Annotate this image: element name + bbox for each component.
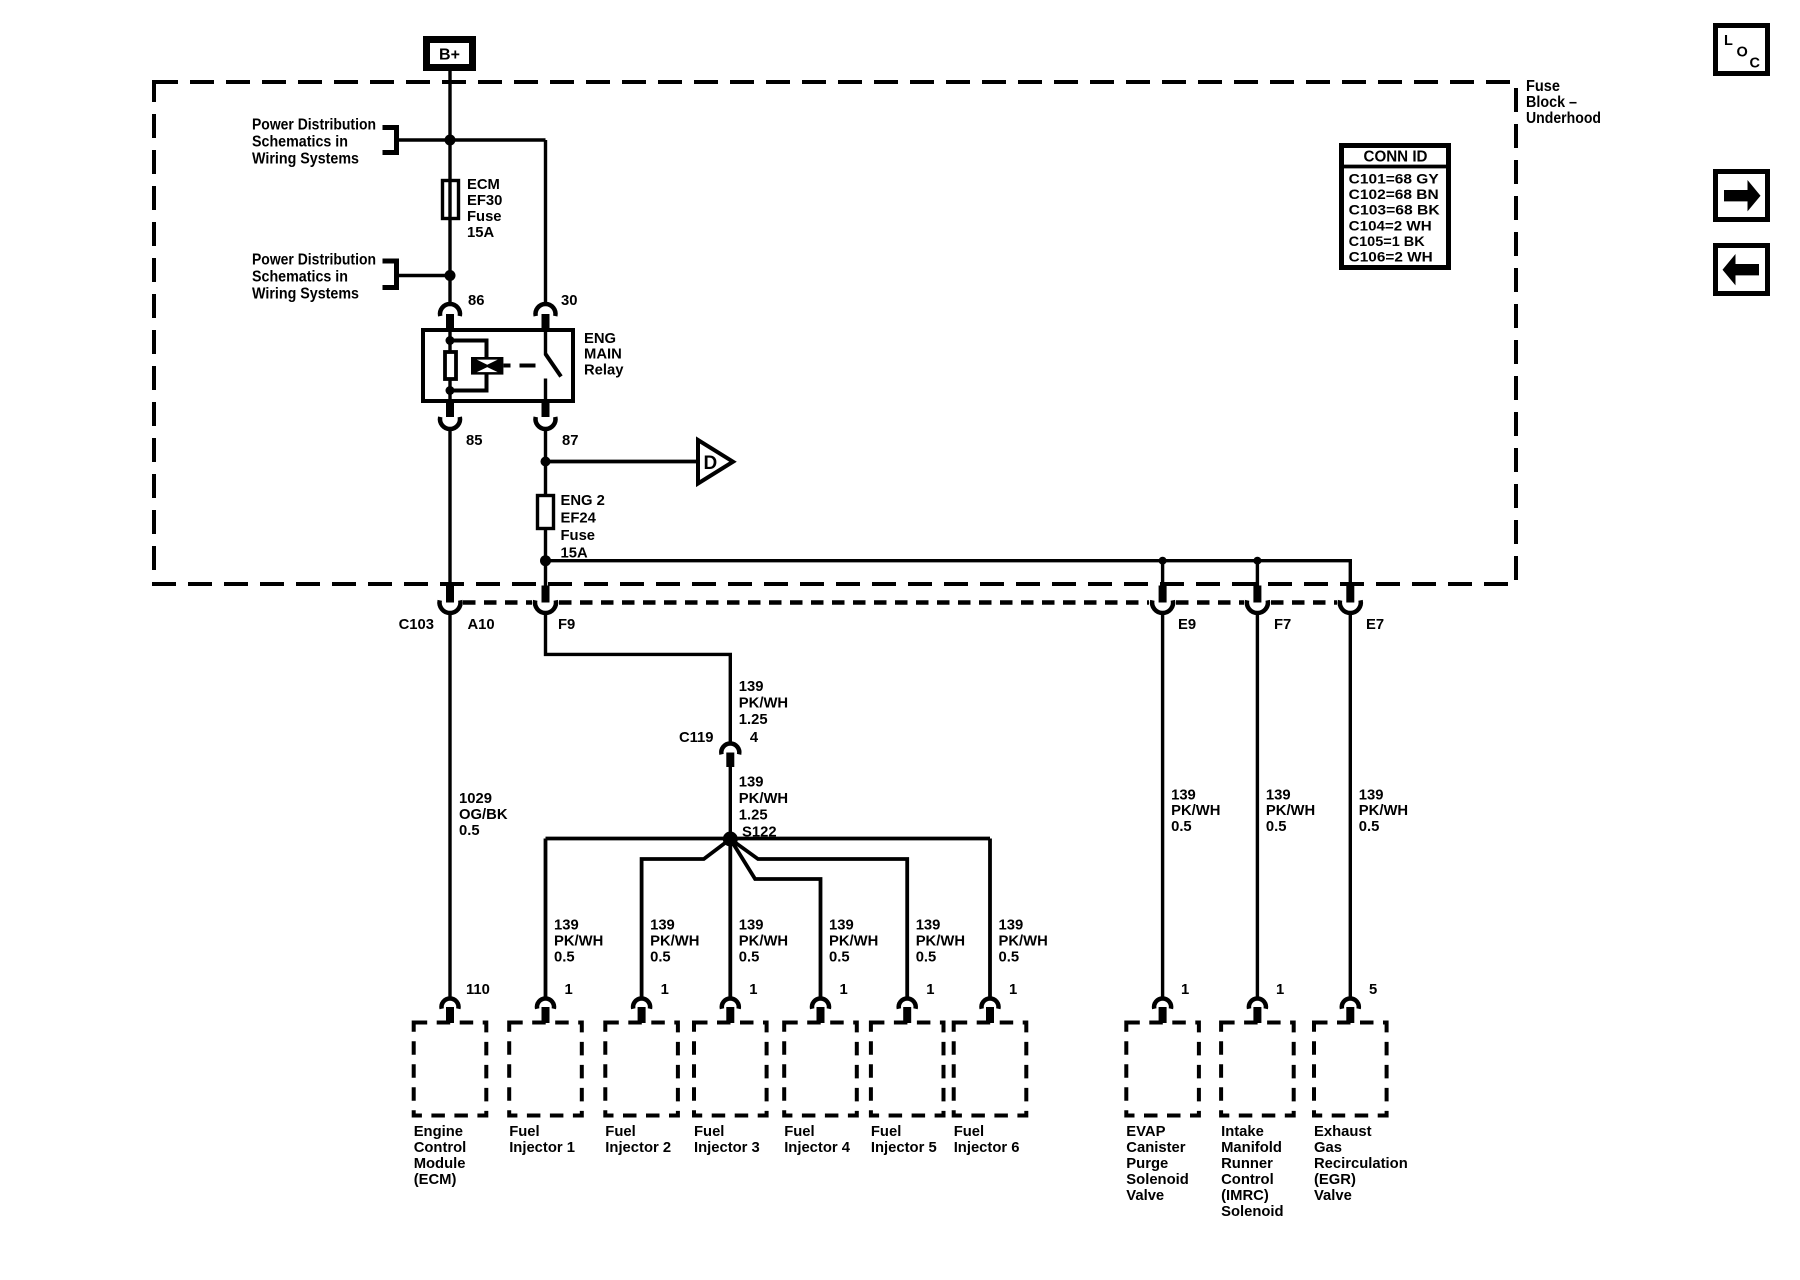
- svg-text:0.5: 0.5: [1171, 819, 1192, 835]
- svg-text:110: 110: [466, 982, 490, 998]
- wire: stub down to E9: [1161, 561, 1164, 586]
- svg-text:Fuel: Fuel: [954, 1124, 984, 1140]
- connector cap at ECM pin 110: [441, 998, 458, 1008]
- connector cap at Fuel Injector 6: [982, 998, 999, 1008]
- svg-text:PK/WH: PK/WH: [1359, 803, 1408, 819]
- svg-text:Fuel: Fuel: [509, 1124, 539, 1140]
- svg-text:5: 5: [1369, 982, 1377, 998]
- svg-text:139: 139: [739, 918, 764, 934]
- connector cap at EVAP valve: [1154, 998, 1171, 1008]
- connector C119: [721, 743, 739, 754]
- svg-text:F7: F7: [1274, 617, 1291, 633]
- svg-text:PK/WH: PK/WH: [739, 934, 788, 950]
- wire: injector 5 branch: [730, 839, 907, 997]
- svg-text:Valve: Valve: [1126, 1188, 1164, 1204]
- svg-text:PK/WH: PK/WH: [739, 791, 788, 807]
- svg-text:1: 1: [565, 982, 573, 998]
- svg-text:Runner: Runner: [1221, 1156, 1273, 1172]
- connector cap at Fuel Injector 3: [722, 998, 739, 1008]
- svg-text:Power Distribution: Power Distribution: [252, 117, 376, 134]
- relay switch: movable arm: [546, 354, 562, 377]
- svg-text:1: 1: [661, 982, 669, 998]
- wire: upper ref to B+ wire and over to relay pin 30: [399, 138, 546, 141]
- fuse ECM EF30 15A: [443, 181, 459, 219]
- svg-text:Fuse: Fuse: [467, 209, 502, 225]
- svg-text:Purge: Purge: [1126, 1156, 1168, 1172]
- fuse ENG 2 EF24 15A: [538, 496, 554, 529]
- wires E9/F7/E7 down to solenoid valves: [1161, 614, 1164, 997]
- svg-text:MAIN: MAIN: [584, 347, 622, 363]
- svg-text:Power Distribution: Power Distribution: [252, 252, 376, 269]
- relay switch: pin 87 contact: [544, 379, 547, 402]
- svg-text:139: 139: [554, 918, 579, 934]
- node: junction at B+ wire / lower ref: [445, 270, 456, 281]
- wire: fuse down to junction: [544, 529, 547, 586]
- svg-text:D: D: [704, 453, 718, 474]
- component box: fuel injector 5: [871, 1023, 944, 1116]
- fuse block dashed border: Fuse Block - Underhood: [154, 82, 1516, 584]
- svg-text:0.5: 0.5: [1359, 819, 1380, 835]
- svg-text:Fuel: Fuel: [784, 1124, 814, 1140]
- wire: coil to armature stub: [504, 364, 511, 368]
- wire: down to relay pin 30: [544, 140, 547, 305]
- svg-text:Gas: Gas: [1314, 1140, 1342, 1156]
- relay coil element (crossed box): [471, 357, 503, 375]
- svg-text:139: 139: [739, 679, 764, 695]
- svg-text:C104=2 WH: C104=2 WH: [1349, 217, 1432, 233]
- svg-text:Injector 3: Injector 3: [694, 1140, 760, 1156]
- svg-text:Module: Module: [414, 1156, 466, 1172]
- svg-text:Fuel: Fuel: [605, 1124, 635, 1140]
- svg-text:ECM: ECM: [467, 177, 500, 193]
- svg-text:Intake: Intake: [1221, 1124, 1264, 1140]
- wire: lower ref to B+ wire: [399, 274, 450, 277]
- wire 139 PK/WH 1.25: F9 down and over to C119: [546, 614, 731, 742]
- svg-text:139: 139: [1171, 788, 1196, 804]
- svg-text:PK/WH: PK/WH: [999, 934, 1048, 950]
- svg-text:PK/WH: PK/WH: [916, 934, 965, 950]
- connector cap at relay pin 30: [536, 304, 556, 316]
- wire: B+ down to relay pin 86 (through ECM fuse): [448, 71, 451, 305]
- svg-text:Block –: Block –: [1526, 94, 1577, 111]
- wire: stub down to F7: [1256, 561, 1259, 586]
- svg-text:C119: C119: [679, 730, 714, 746]
- svg-text:Injector 4: Injector 4: [784, 1140, 851, 1156]
- svg-text:PK/WH: PK/WH: [554, 934, 603, 950]
- svg-text:A10: A10: [468, 617, 495, 633]
- node: junction at B+ wire / upper ref: [445, 135, 456, 146]
- component box: fuel injector 4: [784, 1023, 857, 1116]
- node: junction at E9 stub: [1159, 557, 1167, 565]
- svg-text:1: 1: [840, 982, 848, 998]
- component box: fuel injector 2: [605, 1023, 678, 1116]
- connector cap at EGR valve: [1342, 998, 1359, 1008]
- svg-text:Schematics in: Schematics in: [252, 269, 348, 286]
- svg-text:139: 139: [829, 918, 854, 934]
- svg-text:C106=2 WH: C106=2 WH: [1349, 249, 1433, 265]
- wire: coil parallel loop: [450, 341, 487, 391]
- svg-text:Manifold: Manifold: [1221, 1140, 1282, 1156]
- svg-text:Injector 5: Injector 5: [871, 1140, 937, 1156]
- svg-text:ENG: ENG: [584, 331, 616, 347]
- relay coil resistor: [445, 352, 456, 379]
- svg-text:PK/WH: PK/WH: [1171, 803, 1220, 819]
- svg-text:139: 139: [1266, 788, 1291, 804]
- wire 1029 OG/BK: A10 down to ECM pin 110: [448, 614, 451, 997]
- svg-text:0.5: 0.5: [459, 823, 480, 839]
- svg-text:EF24: EF24: [561, 511, 597, 527]
- svg-text:Engine: Engine: [414, 1124, 463, 1140]
- svg-text:PK/WH: PK/WH: [829, 934, 878, 950]
- svg-text:C103=68 BK: C103=68 BK: [1349, 202, 1440, 218]
- svg-text:C101=68 GY: C101=68 GY: [1349, 171, 1440, 187]
- connector C103 pin E9: [1159, 586, 1167, 603]
- svg-text:Control: Control: [414, 1140, 467, 1156]
- table CONN ID: [1342, 146, 1449, 268]
- connector C103 pin A10: [446, 586, 454, 603]
- connector cap at relay pin 86: [440, 304, 460, 316]
- nav icon: forward arrow box: [1716, 172, 1768, 220]
- bracket: off-page ref Power Distribution (upper): [383, 125, 397, 155]
- svg-text:Relay: Relay: [584, 362, 624, 378]
- wire: feed across to EVAP / IMRC / EGR columns: [546, 561, 1351, 586]
- component box: EVAP canister purge solenoid valve: [1126, 1023, 1199, 1116]
- svg-text:PK/WH: PK/WH: [739, 696, 788, 712]
- svg-text:85: 85: [466, 433, 482, 449]
- svg-text:139: 139: [1359, 788, 1384, 804]
- svg-text:EF30: EF30: [467, 193, 502, 209]
- svg-text:Wiring Systems: Wiring Systems: [252, 286, 359, 303]
- svg-text:CONN ID: CONN ID: [1364, 149, 1428, 166]
- svg-text:C103: C103: [399, 617, 434, 633]
- component box: fuel injector 6: [954, 1023, 1027, 1116]
- component box: engine control module ECM: [414, 1023, 487, 1116]
- svg-text:Injector 2: Injector 2: [605, 1140, 671, 1156]
- svg-text:0.5: 0.5: [739, 950, 760, 966]
- connector C103 pin F9: [542, 586, 550, 603]
- svg-text:(ECM): (ECM): [414, 1172, 457, 1188]
- node: coil bottom junction: [446, 386, 455, 395]
- svg-text:L: L: [1724, 33, 1733, 49]
- wire: relay pin 85 down to connector C103 A10: [448, 428, 451, 586]
- svg-text:PK/WH: PK/WH: [1266, 803, 1315, 819]
- relay switch: pin 30 contact: [544, 330, 547, 355]
- svg-text:Fuse: Fuse: [1526, 78, 1560, 95]
- bracket: off-page ref Power Distribution (lower): [383, 259, 397, 291]
- nav icon: back arrow box: [1716, 246, 1768, 294]
- battery feed terminal B+: [427, 40, 473, 68]
- svg-text:1.25: 1.25: [739, 808, 768, 824]
- svg-text:(EGR): (EGR): [1314, 1172, 1356, 1188]
- svg-text:OG/BK: OG/BK: [459, 807, 508, 823]
- off-page arrow D: [698, 440, 733, 484]
- svg-text:C: C: [1750, 56, 1761, 72]
- svg-text:87: 87: [562, 433, 578, 449]
- svg-text:EVAP: EVAP: [1126, 1124, 1165, 1140]
- svg-text:Fuel: Fuel: [871, 1124, 901, 1140]
- svg-text:139: 139: [739, 775, 764, 791]
- connector cup at relay pin 85: [446, 401, 454, 417]
- svg-text:1: 1: [1009, 982, 1017, 998]
- svg-text:Injector 6: Injector 6: [954, 1140, 1020, 1156]
- svg-text:Control: Control: [1221, 1172, 1274, 1188]
- svg-text:Exhaust: Exhaust: [1314, 1124, 1372, 1140]
- component box: exhaust gas recirculation EGR valve: [1314, 1023, 1387, 1116]
- svg-text:0.5: 0.5: [554, 950, 575, 966]
- svg-text:15A: 15A: [467, 225, 494, 241]
- wire: injector 6 drop: [988, 839, 992, 998]
- wire: injector 3 drop: [728, 839, 732, 997]
- svg-text:0.5: 0.5: [999, 950, 1020, 966]
- connector cup at relay pin 87: [542, 401, 550, 417]
- svg-text:1: 1: [1181, 982, 1189, 998]
- connector cap at Fuel Injector 1: [537, 998, 554, 1008]
- svg-text:Solenoid: Solenoid: [1126, 1172, 1188, 1188]
- connector cap at IMRC solenoid: [1249, 998, 1266, 1008]
- nav icon: LOC box: [1716, 26, 1768, 74]
- wire: injector 4 branch: [730, 839, 820, 997]
- svg-text:1: 1: [1276, 982, 1284, 998]
- svg-text:C102=68 BN: C102=68 BN: [1349, 186, 1439, 202]
- svg-text:Fuel: Fuel: [694, 1124, 724, 1140]
- svg-text:PK/WH: PK/WH: [650, 934, 699, 950]
- svg-text:Solenoid: Solenoid: [1221, 1204, 1283, 1220]
- splice S122: [723, 832, 738, 847]
- wire: splice bus to injectors 1 and 6: [546, 837, 991, 841]
- svg-text:1.25: 1.25: [739, 712, 768, 728]
- component box: fuel injector 3: [694, 1023, 767, 1116]
- connector C103 dotted interconnect line: [463, 600, 532, 605]
- wire: injector 1 drop: [544, 839, 548, 998]
- wire: to off-page arrow D: [546, 460, 699, 464]
- svg-text:O: O: [1737, 45, 1748, 61]
- svg-text:ENG 2: ENG 2: [561, 493, 605, 509]
- wire: relay pin 87 down to ENG 2 fuse: [544, 428, 547, 494]
- svg-text:B+: B+: [439, 47, 460, 64]
- svg-text:F9: F9: [558, 617, 575, 633]
- connector C103 pin E7: [1346, 586, 1354, 603]
- relay ENG MAIN Relay: outline box: [423, 330, 573, 401]
- component box: intake manifold runner control IMRC solenoid: [1221, 1023, 1294, 1116]
- connector cap at Fuel Injector 5: [899, 998, 916, 1008]
- wire: C119 down to splice S122: [729, 767, 732, 839]
- svg-text:0.5: 0.5: [829, 950, 850, 966]
- svg-text:0.5: 0.5: [1266, 819, 1287, 835]
- relay coil branch wire (pin 86 to pin 85): [448, 330, 451, 352]
- svg-text:86: 86: [468, 293, 484, 309]
- svg-text:E7: E7: [1366, 617, 1384, 633]
- svg-text:139: 139: [916, 918, 941, 934]
- svg-text:Wiring Systems: Wiring Systems: [252, 151, 359, 168]
- node: junction to D arrow: [541, 457, 551, 467]
- component box: fuel injector 1: [509, 1023, 582, 1116]
- connector C103 pin F7: [1253, 586, 1261, 603]
- svg-text:1: 1: [749, 982, 757, 998]
- mechanical link dash: [520, 364, 536, 368]
- svg-text:30: 30: [561, 293, 577, 309]
- wire: injector 2 branch: [642, 839, 731, 997]
- svg-text:Underhood: Underhood: [1526, 110, 1601, 127]
- node: junction at F7 stub: [1253, 557, 1261, 565]
- connector cap at Fuel Injector 2: [633, 998, 650, 1008]
- svg-text:1029: 1029: [459, 791, 492, 807]
- svg-text:Recirculation: Recirculation: [1314, 1156, 1408, 1172]
- svg-text:(IMRC): (IMRC): [1221, 1188, 1269, 1204]
- node: coil top junction: [446, 336, 455, 345]
- svg-text:0.5: 0.5: [650, 950, 671, 966]
- node: junction feeding solenoid branch: [540, 555, 551, 566]
- svg-text:139: 139: [650, 918, 675, 934]
- svg-text:Injector 1: Injector 1: [509, 1140, 575, 1156]
- svg-text:0.5: 0.5: [916, 950, 937, 966]
- svg-text:4: 4: [750, 730, 759, 746]
- connector cap at Fuel Injector 4: [812, 998, 829, 1008]
- svg-text:139: 139: [999, 918, 1024, 934]
- svg-text:Valve: Valve: [1314, 1188, 1352, 1204]
- svg-text:Canister: Canister: [1126, 1140, 1185, 1156]
- svg-text:1: 1: [926, 982, 934, 998]
- svg-text:Schematics in: Schematics in: [252, 134, 348, 151]
- svg-text:C105=1 BK: C105=1 BK: [1349, 233, 1425, 249]
- svg-text:E9: E9: [1178, 617, 1196, 633]
- svg-text:Fuse: Fuse: [561, 528, 596, 544]
